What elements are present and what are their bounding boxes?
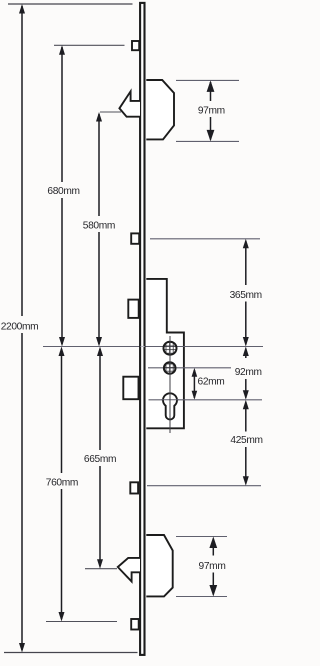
- svg-text:62mm: 62mm: [198, 377, 225, 388]
- euro cylinder cutout: [163, 393, 177, 419]
- deadbolt: [123, 377, 138, 400]
- cylinder centreline over keyhole: [161, 399, 179, 401]
- case vertical centreline: [169, 336, 171, 433]
- svg-text:365mm: 365mm: [230, 290, 262, 301]
- roller cam 4: [130, 482, 138, 493]
- reference line cylinder centre: [149, 399, 263, 401]
- svg-text:97mm: 97mm: [199, 561, 226, 572]
- faint centreline across faceplate: [141, 346, 145, 348]
- central gearbox case: [146, 279, 184, 428]
- faceplate: [140, 3, 144, 655]
- reference line 425mm bottom: [147, 485, 261, 487]
- roller cam 1: [132, 41, 139, 50]
- reference line main spindle centreline: [43, 346, 263, 348]
- reference line 97mm lower bottom: [176, 596, 227, 598]
- dimension 97mm lower: [212, 539, 214, 595]
- svg-text:425mm: 425mm: [230, 435, 262, 446]
- reference line 760mm bottom: [46, 621, 117, 623]
- dimension 92mm: [245, 349, 247, 398]
- svg-text:760mm: 760mm: [46, 478, 78, 489]
- anti-lift pin block: [128, 300, 138, 318]
- svg-text:97mm: 97mm: [198, 106, 225, 117]
- dimension 365mm: [245, 241, 247, 345]
- dimension 580mm: [98, 114, 100, 344]
- dimension 680mm: [61, 47, 63, 344]
- reference line second spindle: [148, 367, 231, 369]
- dimension 2200mm: [21, 6, 23, 650]
- dimension 665mm: [99, 349, 101, 566]
- reference line 97mm upper top: [176, 79, 239, 81]
- reference line 97mm lower top: [176, 536, 227, 538]
- lower gearbox housing: [146, 535, 172, 596]
- reference line 97mm upper bottom: [176, 140, 239, 142]
- reference line 365mm top: [150, 238, 260, 240]
- reference line top 2200mm: [8, 3, 133, 5]
- svg-text:680mm: 680mm: [47, 186, 79, 197]
- spindle hub upper: [164, 342, 177, 355]
- upper gearbox housing: [146, 80, 174, 139]
- dimension 62mm: [193, 370, 195, 398]
- dimension 425mm: [245, 402, 247, 484]
- dimension 760mm: [61, 349, 63, 619]
- reference line 580mm top: [100, 111, 121, 113]
- svg-text:92mm: 92mm: [235, 367, 262, 378]
- svg-text:580mm: 580mm: [83, 221, 115, 232]
- dimension 97mm upper: [210, 82, 212, 140]
- upper hook bolt: [119, 91, 140, 116]
- lower hook bolt: [118, 558, 140, 582]
- svg-text:2200mm: 2200mm: [1, 322, 39, 333]
- svg-text:665mm: 665mm: [84, 454, 116, 465]
- spindle hub lower: [164, 362, 176, 374]
- reference line bottom 2200mm: [4, 652, 138, 654]
- roller cam 5: [131, 619, 139, 630]
- roller cam 2: [131, 233, 139, 243]
- reference line 680mm top: [54, 44, 125, 46]
- reference line 665mm bottom: [85, 568, 117, 570]
